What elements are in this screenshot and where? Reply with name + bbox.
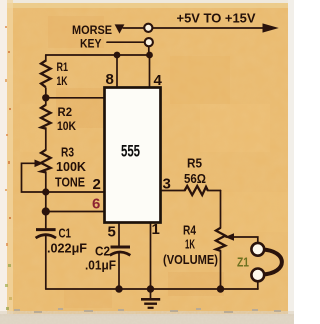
svg-text:2: 2 [93, 176, 101, 193]
svg-text:1: 1 [152, 221, 160, 238]
svg-text:R4: R4 [183, 223, 197, 238]
junction R4/ground bus [217, 285, 224, 292]
svg-text:R5: R5 [187, 156, 202, 171]
wire: pin 7 stub [46, 97, 105, 99]
supply arrowhead [263, 23, 279, 32]
svg-text:R3: R3 [61, 146, 74, 160]
wire: +5V supply rail [123, 27, 144, 29]
wire: left rail top [45, 55, 47, 61]
junction pin2/wiper [42, 188, 49, 195]
morse arrow [115, 24, 125, 33]
right light scan edge [288, 0, 294, 324]
junction C2/ground bus [115, 285, 122, 292]
svg-text:4: 4 [154, 72, 163, 89]
junction pin1/ground bus [147, 285, 154, 292]
svg-text:1K: 1K [57, 74, 68, 88]
junction pin6 [42, 207, 50, 215]
svg-text:(VOLUME): (VOLUME) [163, 252, 218, 267]
wire: R5 to corner [208, 190, 221, 192]
bottom speckle streak [14, 308, 281, 313]
svg-text:.022μF: .022μF [47, 240, 87, 255]
key terminal lower [145, 38, 153, 46]
wire: pin 3 lead [161, 190, 186, 192]
background mottle patches [20, 16, 288, 308]
junction R1/R2 pin7 [42, 94, 49, 101]
svg-text:.01μF: .01μF [85, 257, 116, 272]
wire: pin 1 ground drop [150, 223, 152, 290]
svg-text:R1: R1 [57, 60, 69, 74]
resistor R5 [185, 186, 208, 195]
wire: bottom ground bus [46, 288, 258, 290]
svg-text:8: 8 [106, 71, 114, 88]
R3 wiper arrowhead [35, 160, 44, 168]
left edge speckles [5, 26, 12, 310]
resistor R1 [41, 61, 51, 88]
wire: key terminal drop [148, 47, 150, 56]
top light scan edge [0, 0, 294, 3]
capacitor C1 [36, 230, 56, 238]
svg-text:KEY: KEY [80, 36, 102, 50]
wire: pin 2 lead [46, 191, 105, 193]
wire: rail R2-R3 [45, 128, 47, 150]
wire: R4 wiper to jack [226, 237, 258, 242]
svg-text:TONE: TONE [55, 176, 85, 190]
wire: R3 wiper loop [22, 163, 46, 192]
junction pin4 bus [146, 52, 153, 59]
wire: C2 bottom lead [118, 254, 120, 290]
wire: jack sleeve drop [257, 282, 259, 289]
wire: key lower lead [107, 41, 145, 43]
potentiometer R3 [41, 150, 51, 173]
svg-text:C1: C1 [59, 226, 72, 241]
wire: corner down to R4 [220, 191, 222, 229]
capacitor C2 [110, 247, 131, 255]
bottom scan band [0, 314, 294, 324]
ground symbol [141, 289, 160, 308]
junction pin8 bus [114, 52, 121, 59]
svg-text:Z1: Z1 [237, 255, 249, 270]
wire: R4 bottom lead [220, 251, 222, 290]
resistor R2 [41, 105, 51, 129]
svg-text:R2: R2 [58, 105, 73, 119]
key terminal upper [144, 24, 152, 32]
svg-text:+5V TO +15V: +5V TO +15V [177, 11, 256, 26]
svg-text:100K: 100K [56, 160, 86, 174]
svg-text:6: 6 [92, 196, 100, 213]
wire: top horizontal bus [46, 54, 150, 56]
wire: pin 4 vertical [149, 55, 151, 88]
jack Z1 sleeve terminal [251, 269, 264, 282]
left light scan edge [0, 0, 7, 324]
wire: rail R1-R2 [45, 88, 47, 105]
svg-text:C2: C2 [95, 243, 110, 258]
wire: C1 bottom lead [45, 237, 47, 290]
svg-text:56Ω: 56Ω [184, 171, 206, 186]
jack Z1 body arc [262, 250, 282, 275]
wire: pin 8 vertical [116, 55, 118, 88]
wire: rail R3 down to C1 [45, 172, 47, 229]
potentiometer R4 [216, 228, 225, 251]
svg-text:555: 555 [121, 142, 140, 160]
svg-text:10K: 10K [57, 119, 76, 133]
svg-text:1K: 1K [185, 237, 195, 252]
jack Z1 tip terminal [251, 243, 264, 256]
IC U1 555 [105, 88, 161, 223]
R4 wiper arrowhead [225, 233, 234, 241]
svg-text:MORSE: MORSE [72, 23, 112, 37]
wire: pin 6 lead [46, 211, 105, 213]
svg-text:3: 3 [163, 176, 171, 193]
wire: pin 5 lead to C2 [118, 223, 120, 247]
svg-text:5: 5 [108, 224, 116, 241]
